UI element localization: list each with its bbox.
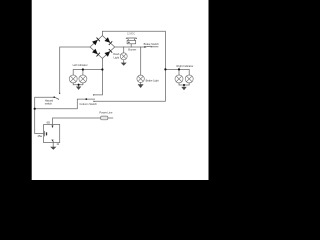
svg-text:Column Switch: Column Switch — [80, 102, 98, 106]
svg-text:Dash: Dash — [113, 52, 120, 56]
svg-text:Light: Light — [113, 56, 119, 60]
svg-text:12VDC: 12VDC — [127, 33, 135, 36]
svg-text:45a: 45a — [38, 134, 43, 138]
svg-text:6D: 6D — [47, 120, 50, 124]
svg-text:Buzzer: Buzzer — [128, 48, 136, 52]
svg-text:Brake Light: Brake Light — [146, 79, 159, 83]
svg-text:Left Indicator: Left Indicator — [73, 63, 88, 67]
svg-text:Power Line: Power Line — [99, 111, 113, 115]
svg-text:Brake Switch: Brake Switch — [144, 42, 160, 46]
svg-text:Right Indicator: Right Indicator — [177, 64, 194, 68]
svg-text:switch: switch — [45, 102, 53, 106]
